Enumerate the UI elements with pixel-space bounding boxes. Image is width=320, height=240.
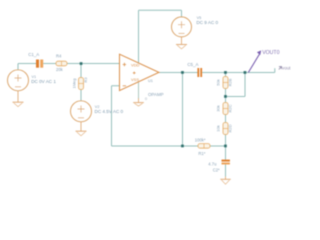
node bypass junction (244, 71, 247, 74)
svg-text:VOUT0: VOUT0 (262, 50, 279, 56)
ground under V3 (176, 37, 187, 49)
resistor R3 (79, 78, 84, 90)
pin + mark (133, 72, 136, 75)
svg-text:10k: 10k (215, 125, 220, 131)
wire E1 to E2 (225, 89, 227, 103)
wire VDD vertical (138, 10, 140, 63)
capacitor C1 (36, 60, 43, 68)
node feedback bottom junction (181, 145, 184, 148)
svg-text:30k: 30k (215, 105, 220, 111)
wire opamp output rail (159, 72, 198, 74)
svg-text:R3: R3 (83, 77, 88, 83)
capacitor C2 (222, 160, 230, 165)
node chain bottom junction (224, 145, 227, 148)
source V2 (71, 101, 92, 122)
svg-text:50k: 50k (215, 79, 220, 85)
wire input to C1 (18, 63, 36, 65)
resistor R4 (56, 61, 67, 66)
resistor R2B (E1) (223, 77, 228, 89)
wire C2 to ground (225, 164, 227, 176)
svg-text:R2D: R2D (228, 124, 233, 132)
probe VOUT0 (248, 50, 261, 72)
wire feedback drop from output (182, 73, 184, 147)
svg-text:C5_A: C5_A (187, 62, 198, 67)
svg-text:4.7u: 4.7u (208, 162, 217, 167)
node E1-E2 junction (224, 95, 227, 98)
ground under C2 (220, 177, 230, 185)
svg-text:R2B: R2B (228, 78, 233, 86)
wire C1 to R4 (43, 63, 56, 65)
wire chain top (225, 73, 227, 77)
wire R4 to opamp +in (67, 63, 120, 65)
wire E2 to E3 (225, 115, 227, 123)
wire R3 to V2 (80, 90, 82, 101)
wire output rail after C3 (202, 72, 275, 74)
svg-text:100k*: 100k* (195, 138, 206, 143)
svg-text:VDD: VDD (131, 62, 140, 67)
svg-text:DC 4.5V AC 0: DC 4.5V AC 0 (95, 109, 124, 114)
node chain top junction (224, 71, 227, 74)
svg-text:20k: 20k (56, 67, 64, 72)
wire E3 to bottom rail (225, 135, 227, 147)
ground under V1 (13, 91, 24, 107)
svg-text:OPAMP: OPAMP (148, 92, 164, 97)
wire feedback left vertical (111, 86, 113, 146)
svg-text:vout: vout (282, 65, 291, 70)
ground under opamp VSS (133, 97, 147, 106)
wire bottom rail left (112, 145, 199, 147)
node output junction (181, 71, 184, 74)
wire bypass horizontal (226, 96, 246, 98)
wire VDD top rail (139, 9, 182, 11)
svg-text:VSS: VSS (131, 77, 139, 82)
op-amp U1 (120, 54, 159, 90)
wire bottom rail right (210, 145, 226, 147)
svg-text:R4: R4 (56, 54, 62, 59)
resistor R2D (E3) (223, 123, 228, 135)
source V1 (8, 70, 29, 91)
svg-text:R2C: R2C (228, 104, 233, 112)
wire V1 top stub (17, 64, 19, 70)
svg-text:C1_A: C1_A (28, 52, 39, 57)
wire V3 top stub (181, 10, 183, 17)
svg-text:DC 0V AC 1: DC 0V AC 1 (31, 79, 56, 84)
svg-text:1Meg: 1Meg (72, 78, 77, 88)
ground under V2 (76, 122, 87, 136)
wire bypass vertical (244, 73, 246, 97)
wire C2 top (225, 146, 227, 160)
svg-text:R1*: R1* (198, 151, 205, 156)
wire inverting input (112, 85, 130, 87)
wire output end tick (274, 68, 276, 72)
wire node A drop to R3 (80, 64, 82, 78)
resistor R1 (198, 144, 210, 149)
net label vout (279, 67, 282, 70)
source V3 (172, 17, 192, 37)
capacitor C3 (197, 68, 202, 77)
svg-text:U1: U1 (148, 78, 153, 83)
svg-text:DC 9 AC 0: DC 9 AC 0 (196, 20, 218, 25)
resistor R2C (E2) (223, 103, 228, 115)
node A junction (80, 62, 83, 65)
svg-text:C2*: C2* (213, 167, 220, 172)
wire VSS down (138, 82, 140, 99)
svg-text:0: 0 (145, 97, 147, 101)
